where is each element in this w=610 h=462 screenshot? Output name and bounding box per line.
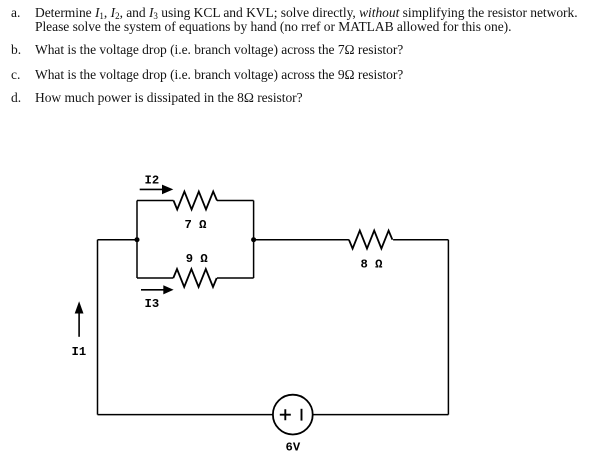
voltage source V1 plus sign <box>280 409 291 420</box>
problem text item a marker <box>11 5 20 21</box>
svg-text:8 Ω: 8 Ω <box>361 258 384 272</box>
wire: bottom left segment <box>98 414 274 416</box>
problem text item a line 2 <box>35 19 511 35</box>
problem text item c <box>35 67 403 83</box>
problem text item b marker <box>11 42 21 58</box>
problem text item d marker <box>11 90 21 106</box>
problem text item a line 1 <box>35 5 578 21</box>
svg-text:6V: 6V <box>286 441 301 455</box>
wire: bottom right segment <box>313 414 449 416</box>
svg-text:7 Ω: 7 Ω <box>185 218 208 232</box>
problem text item b <box>35 42 403 58</box>
resistor R1 7 ohm (zigzag, top branch) <box>174 192 218 210</box>
current arrow I2 (shaft) <box>140 188 164 190</box>
voltage source V1 circle <box>273 395 313 435</box>
wire: bottom branch left stub <box>137 277 173 279</box>
node dot B (right junction) <box>251 237 256 242</box>
wire: parallel combo left vertical <box>136 201 138 279</box>
current arrow I2 (head) <box>162 185 173 195</box>
wire: node A stub (left node to left outer wire) <box>98 239 138 241</box>
node dot A (left junction) <box>135 237 140 242</box>
resistor R3 8 ohm (zigzag, right horizontal wire) <box>349 231 393 249</box>
current arrow I1 (shaft) <box>78 313 80 337</box>
current arrow I3 (shaft) <box>141 289 164 291</box>
svg-text:9 Ω: 9 Ω <box>186 252 209 266</box>
wire: node B to 8-ohm resistor <box>254 239 349 241</box>
problem text item c marker <box>11 67 20 83</box>
current arrow I3 (head) <box>163 285 173 294</box>
wire: right outer vertical <box>447 240 449 415</box>
svg-text:I2: I2 <box>145 173 160 187</box>
voltage source V1 minus bar <box>301 409 303 421</box>
wire: top branch left stub <box>137 200 174 202</box>
current arrow I1 (head) <box>75 301 84 313</box>
problem text item d <box>35 90 303 106</box>
resistor R2 9 ohm (zigzag, bottom branch) <box>173 269 216 287</box>
svg-text:I1: I1 <box>72 345 87 359</box>
wire: bottom branch right stub <box>217 277 254 279</box>
svg-text:I3: I3 <box>145 297 160 311</box>
wire: left outer vertical <box>97 240 99 415</box>
wire: top branch right stub <box>217 200 254 202</box>
wire: 8-ohm resistor to top right corner <box>393 239 448 241</box>
wire: parallel combo right vertical <box>253 201 255 279</box>
